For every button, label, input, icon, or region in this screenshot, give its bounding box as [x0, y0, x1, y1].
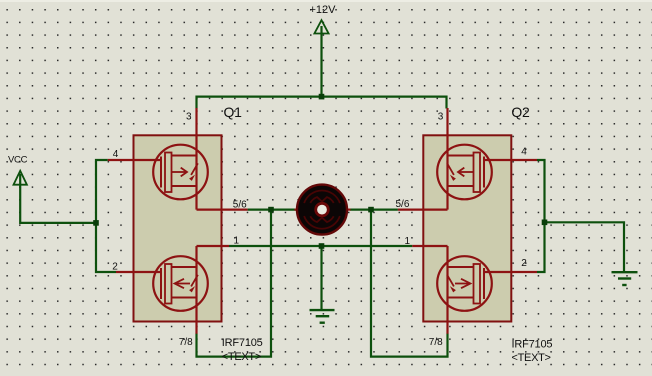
- svg-text:<TEXT>: <TEXT>: [512, 352, 551, 364]
- svg-text:Q1: Q1: [224, 104, 243, 120]
- svg-text:4: 4: [113, 149, 119, 160]
- svg-text:IRF7105: IRF7105: [222, 337, 263, 349]
- svg-text:Q2: Q2: [511, 104, 530, 120]
- svg-text:5/6: 5/6: [396, 199, 410, 210]
- svg-text:VCC: VCC: [8, 154, 28, 165]
- svg-text:IRF7105: IRF7105: [512, 339, 553, 351]
- svg-text:2: 2: [521, 258, 527, 269]
- svg-text:7/8: 7/8: [429, 337, 443, 348]
- svg-text:3: 3: [438, 112, 444, 123]
- svg-text:7/8: 7/8: [179, 337, 193, 348]
- svg-text:4: 4: [521, 146, 527, 157]
- svg-text:<TEXT>: <TEXT>: [222, 351, 261, 363]
- svg-text:2: 2: [112, 261, 118, 272]
- svg-text:1: 1: [234, 236, 240, 247]
- svg-text:3: 3: [186, 111, 192, 122]
- svg-text:5/6: 5/6: [233, 200, 247, 211]
- svg-text:1: 1: [405, 236, 411, 247]
- svg-text:+12V: +12V: [310, 4, 337, 16]
